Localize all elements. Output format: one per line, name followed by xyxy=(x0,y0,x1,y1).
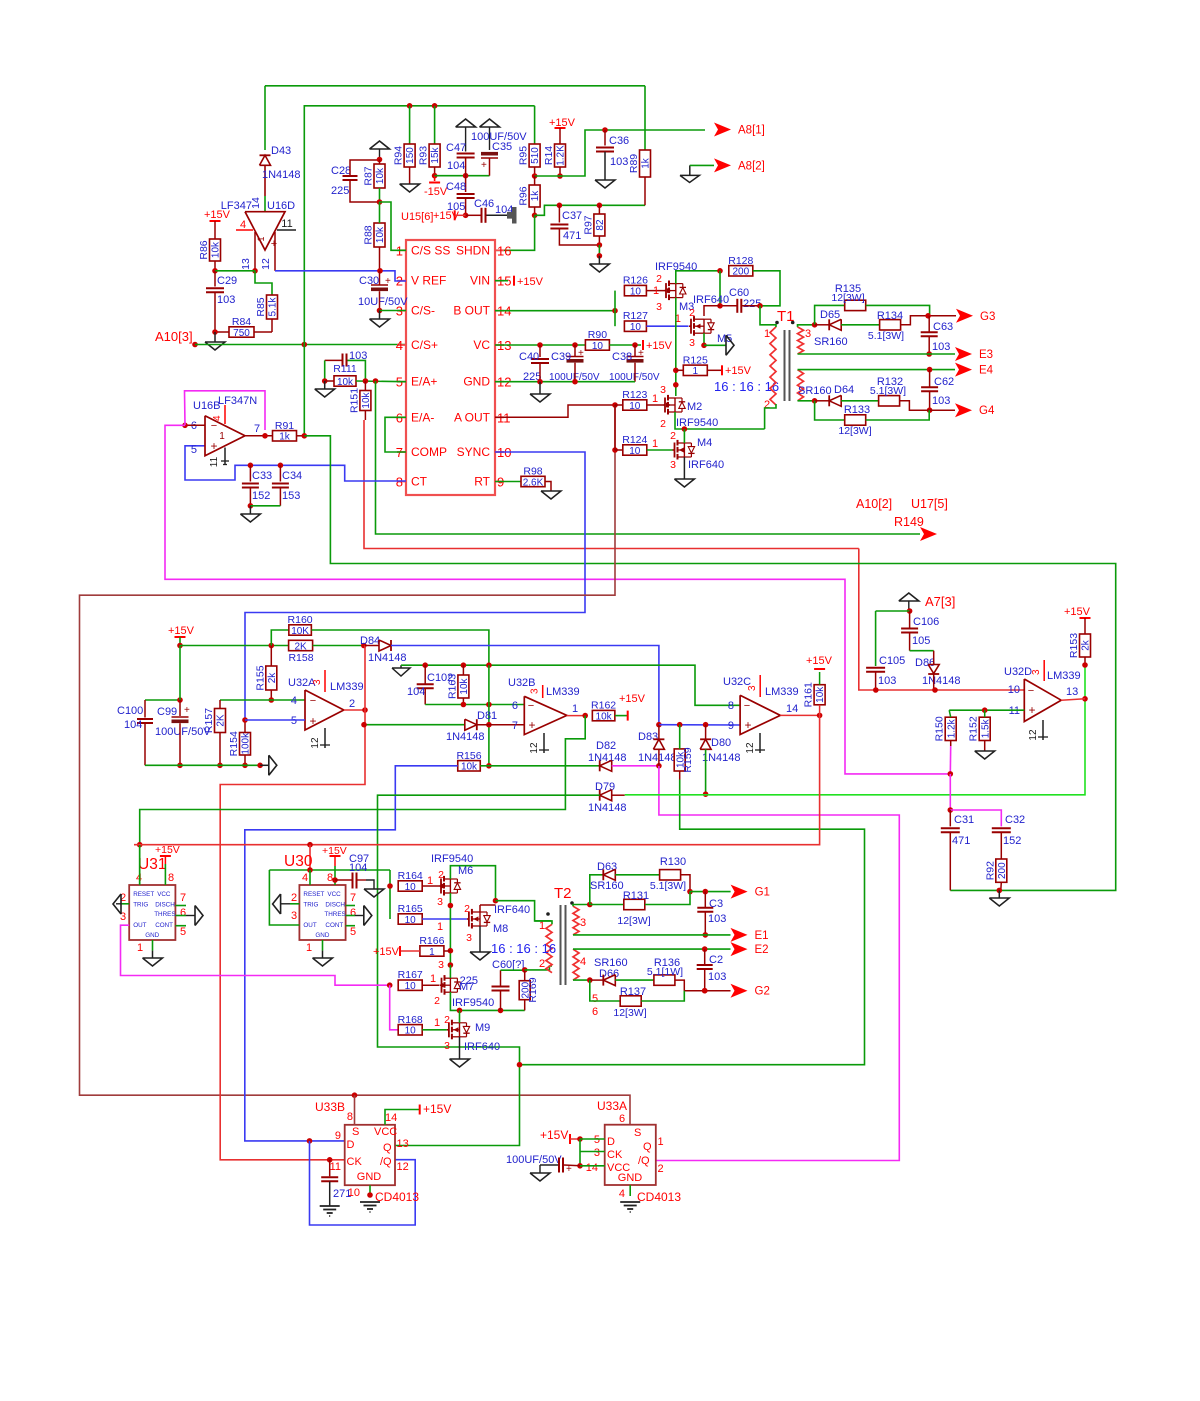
wire D84 cathode blue to U32C pin9 riser xyxy=(391,646,659,725)
ground under C40 xyxy=(539,382,541,394)
svg-text:2: 2 xyxy=(539,958,545,970)
IC U33A CD4013 xyxy=(605,1125,656,1185)
svg-text:R157: R157 xyxy=(203,708,215,733)
svg-text:7: 7 xyxy=(180,892,186,904)
svg-text:1: 1 xyxy=(430,973,436,985)
svg-text:VCC: VCC xyxy=(327,891,341,898)
svg-text:+15V: +15V xyxy=(806,655,833,667)
ground under 271 cap xyxy=(320,1205,340,1207)
wire U32D pin11 row xyxy=(949,709,1024,711)
svg-text:10k: 10k xyxy=(461,762,478,773)
transistor M9 IRF640 xyxy=(447,1029,449,1031)
ground U30 pin1 xyxy=(322,940,324,951)
svg-text:10: 10 xyxy=(629,446,641,457)
svg-text:R137: R137 xyxy=(620,986,646,998)
svg-text:10K: 10K xyxy=(291,626,309,637)
resistor R167 10 xyxy=(398,980,422,990)
svg-text:153: 153 xyxy=(282,490,300,502)
svg-text:+: + xyxy=(385,276,391,287)
svg-text:1: 1 xyxy=(652,393,658,405)
ground under C29 xyxy=(214,332,216,342)
net arrow above C47 xyxy=(456,119,476,127)
svg-text:COMP: COMP xyxy=(411,445,447,459)
svg-text:3: 3 xyxy=(530,688,541,694)
svg-text:R154: R154 xyxy=(228,731,240,756)
wire C106 jog to D86 xyxy=(910,650,934,652)
wire U32A pin5 blue xyxy=(245,719,305,721)
svg-text:R165: R165 xyxy=(398,903,423,915)
U15 pin 1 C/S SS xyxy=(397,249,406,251)
resistor R152 1.5k xyxy=(979,717,990,740)
svg-text:R93: R93 xyxy=(418,146,430,165)
svg-text:C/S-: C/S- xyxy=(411,304,435,318)
svg-text:6: 6 xyxy=(592,1006,598,1018)
capacitor C39 100UF/50V xyxy=(574,345,576,357)
ground under R97 xyxy=(598,256,600,264)
svg-text:471: 471 xyxy=(952,835,970,847)
svg-text:Q: Q xyxy=(383,1142,392,1154)
svg-text:3: 3 xyxy=(805,328,811,340)
wire D80 anode to lime row xyxy=(705,749,707,794)
svg-text:/Q: /Q xyxy=(638,1155,650,1167)
ground rail under U32A xyxy=(145,764,260,766)
svg-text:M2: M2 xyxy=(687,401,702,413)
svg-text:C100: C100 xyxy=(117,705,143,717)
U15 pin 2 V REF xyxy=(397,280,406,282)
svg-text:RT: RT xyxy=(474,475,490,489)
resistor R91 1k xyxy=(273,431,297,441)
svg-text:C32: C32 xyxy=(1005,814,1025,826)
svg-text:3: 3 xyxy=(444,1040,450,1052)
svg-text:3: 3 xyxy=(437,896,443,908)
svg-text:8: 8 xyxy=(728,700,734,712)
resistor R162 10k xyxy=(592,710,615,720)
wire +15V rail to R158 xyxy=(180,645,289,647)
svg-text:2: 2 xyxy=(464,903,470,915)
svg-text:+: + xyxy=(528,718,535,732)
wire x489 vertical xyxy=(488,665,490,766)
svg-text:104: 104 xyxy=(349,862,367,874)
wire red bus to U30 rail stub xyxy=(309,845,311,870)
svg-text:15k: 15k xyxy=(430,146,441,163)
svg-text:U31: U31 xyxy=(138,856,166,873)
svg-text:D43: D43 xyxy=(271,145,291,157)
svg-text:105: 105 xyxy=(912,635,930,647)
net arrow G4 xyxy=(955,403,972,417)
svg-text:E2: E2 xyxy=(755,944,769,956)
svg-text:12: 12 xyxy=(745,742,756,754)
net arrow A8[2] xyxy=(714,158,731,172)
svg-text:11: 11 xyxy=(281,218,292,230)
svg-text:R95: R95 xyxy=(518,146,530,165)
wire E2 row xyxy=(573,948,731,950)
svg-text:6: 6 xyxy=(180,907,186,919)
svg-text:M5: M5 xyxy=(717,333,732,345)
net arrow above R87 xyxy=(370,141,390,149)
svg-text:14: 14 xyxy=(586,1162,598,1174)
svg-text:C39: C39 xyxy=(551,351,571,363)
transistor M6 IRF9540 xyxy=(439,885,441,887)
svg-text:R14: R14 xyxy=(543,146,555,165)
svg-text:C36: C36 xyxy=(609,135,629,147)
wire R95/R14 row to A8 riser xyxy=(535,130,705,176)
svg-text:16 : 16 : 16: 16 : 16 : 16 xyxy=(714,379,779,394)
svg-text:510: 510 xyxy=(530,147,541,164)
svg-text:C28: C28 xyxy=(331,165,351,177)
svg-text:GND: GND xyxy=(145,932,159,939)
svg-text:1N4148: 1N4148 xyxy=(638,752,677,764)
wire M6 drain loop to M8 drain xyxy=(450,866,495,901)
svg-text:10: 10 xyxy=(405,981,417,992)
svg-text:8: 8 xyxy=(327,872,333,884)
svg-text:CK: CK xyxy=(607,1149,623,1161)
U15 pin 5 E/A+ xyxy=(397,381,406,383)
wire U31 CONT stub xyxy=(175,925,186,927)
net arrow above C35 xyxy=(480,119,500,127)
svg-text:R159: R159 xyxy=(682,747,694,772)
wire T2 pin1 jog xyxy=(535,921,552,924)
svg-text:U15[6]: U15[6] xyxy=(401,211,433,223)
svg-text:R128: R128 xyxy=(728,255,753,267)
svg-text:11: 11 xyxy=(209,456,220,467)
wire magenta to U33A /Q xyxy=(656,766,900,1161)
wire R165 blue to M8 gate xyxy=(422,918,467,920)
IC U30 555 timer xyxy=(299,885,345,940)
svg-text:D80: D80 xyxy=(711,737,731,749)
wire D82 anode magenta to D83 bottom xyxy=(612,765,659,767)
resistor R96 1k xyxy=(529,185,540,207)
capacitor C106 105 xyxy=(909,611,911,629)
svg-text:VIN: VIN xyxy=(470,274,490,288)
ground at C97 xyxy=(364,889,384,897)
U15 pin 11 A OUT xyxy=(495,416,504,418)
svg-text:TRIG: TRIG xyxy=(303,902,318,909)
svg-text:2: 2 xyxy=(658,1163,664,1175)
svg-text:−: − xyxy=(310,695,316,707)
svg-text:THRES: THRES xyxy=(154,911,175,918)
wire U33B GND xyxy=(369,1185,371,1195)
svg-text:R150: R150 xyxy=(934,716,946,741)
svg-text:1: 1 xyxy=(437,921,443,933)
wire M8 drain up xyxy=(479,905,481,912)
svg-text:LM339: LM339 xyxy=(1047,670,1081,682)
svg-text:T2: T2 xyxy=(554,885,572,902)
svg-text:IRF640: IRF640 xyxy=(693,294,729,306)
resistor R128 200 xyxy=(729,266,753,276)
svg-text:IRF640: IRF640 xyxy=(688,459,724,471)
svg-text:+15V: +15V xyxy=(155,844,180,856)
svg-text:3: 3 xyxy=(747,685,758,691)
U15 pin 4 C/S+ xyxy=(397,344,406,346)
svg-text:OUT: OUT xyxy=(133,922,146,929)
svg-text:D: D xyxy=(607,1136,615,1148)
svg-text:+15V: +15V xyxy=(517,276,544,288)
svg-text:150: 150 xyxy=(405,147,416,164)
svg-text:SYNC: SYNC xyxy=(457,445,491,459)
svg-text:G3: G3 xyxy=(980,311,995,323)
svg-text:R130: R130 xyxy=(660,856,686,868)
svg-text:10: 10 xyxy=(630,286,642,297)
svg-text:R155: R155 xyxy=(254,665,266,690)
wire blue row to U32C pin9 xyxy=(659,724,740,726)
wire R91 output to top bus xyxy=(304,106,534,436)
svg-text:82: 82 xyxy=(595,219,606,231)
resistor R97 82 xyxy=(594,214,605,236)
svg-text:1: 1 xyxy=(693,366,699,377)
svg-text:2: 2 xyxy=(434,995,440,1007)
resistor R133 12[3W] xyxy=(815,401,845,420)
svg-text:G2: G2 xyxy=(755,986,770,998)
resistor R92 200 xyxy=(996,859,1007,882)
svg-text:LF347N: LF347N xyxy=(218,395,257,407)
resistor R84 750 xyxy=(254,331,272,333)
resistor R163 10k xyxy=(458,675,469,698)
wire M9 drain up xyxy=(459,1010,461,1022)
wire U30 rail wrap to OUT xyxy=(269,870,299,925)
U15 pin 6 E/A- xyxy=(397,416,406,418)
wire M5 source to net arrow xyxy=(703,333,705,345)
svg-text:103: 103 xyxy=(932,395,950,407)
U15 pin 10 SYNC xyxy=(495,451,504,453)
svg-text:V REF: V REF xyxy=(411,274,446,288)
wire T2 pin6 to D66 node xyxy=(573,979,590,981)
svg-text:R127: R127 xyxy=(623,310,648,322)
svg-text:R126: R126 xyxy=(623,275,648,287)
svg-text:2: 2 xyxy=(689,307,695,319)
svg-text:16: 16 xyxy=(497,243,511,258)
wire -15V rail to C47 C35 xyxy=(435,175,490,177)
svg-text:13: 13 xyxy=(1066,686,1078,698)
wire SHDN riser R96 to pin16 xyxy=(495,215,535,250)
svg-text:13: 13 xyxy=(240,258,252,270)
svg-text:5.1[3W]: 5.1[3W] xyxy=(868,330,904,342)
svg-text:4: 4 xyxy=(302,872,308,884)
wire U31 OUT magenta to R167 R168 xyxy=(121,925,390,985)
wire U31 TRIG arrow xyxy=(121,903,129,905)
capacitor C60[?] 225 xyxy=(500,970,502,986)
comparator U32B LM339 xyxy=(524,696,567,734)
svg-text:103: 103 xyxy=(610,156,628,168)
svg-text:10: 10 xyxy=(405,915,417,926)
svg-text:VCC: VCC xyxy=(374,1126,397,1138)
svg-text:3: 3 xyxy=(656,301,662,313)
svg-text:R124: R124 xyxy=(622,434,647,446)
svg-text:2: 2 xyxy=(656,273,662,285)
svg-text:100UF/50V: 100UF/50V xyxy=(506,1154,562,1166)
svg-text:A7[3]: A7[3] xyxy=(925,594,955,609)
svg-text:R90: R90 xyxy=(588,329,607,341)
svg-text:1k: 1k xyxy=(641,157,652,169)
svg-text:9: 9 xyxy=(335,1130,341,1142)
svg-text:VC: VC xyxy=(473,338,490,352)
wire R156 right to D82 xyxy=(480,765,599,767)
svg-text:M9: M9 xyxy=(475,1022,490,1034)
svg-text:1: 1 xyxy=(137,942,143,954)
svg-text:U17[5]: U17[5] xyxy=(911,497,948,511)
resistor R89 1k xyxy=(644,86,646,150)
wire A OUT chain to R124 xyxy=(614,405,616,450)
svg-text:R149: R149 xyxy=(894,515,924,529)
svg-text:12: 12 xyxy=(1028,729,1039,741)
svg-text:C105: C105 xyxy=(879,655,905,667)
svg-text:3: 3 xyxy=(660,384,666,396)
comparator U32A LM339 xyxy=(305,690,344,730)
wire D79 cathode to U33B Q net xyxy=(378,795,600,1064)
svg-text:11: 11 xyxy=(330,1161,341,1173)
svg-text:D83: D83 xyxy=(638,731,658,743)
svg-text:IRF640: IRF640 xyxy=(464,1041,500,1053)
svg-text:C/S+: C/S+ xyxy=(411,338,438,352)
resistor R155 2k xyxy=(266,666,277,690)
net arrow E4 xyxy=(955,363,972,377)
svg-text:+: + xyxy=(1028,703,1035,717)
svg-text:LM339: LM339 xyxy=(330,681,364,693)
svg-text:3: 3 xyxy=(312,679,323,685)
svg-text:200: 200 xyxy=(732,267,749,278)
resistor R126 10 xyxy=(624,285,646,295)
svg-text:C46: C46 xyxy=(474,198,494,210)
wire A OUT brown bus to U33 S pins xyxy=(80,405,631,1125)
svg-text:A10[3]: A10[3] xyxy=(155,329,193,344)
svg-text:G1: G1 xyxy=(755,887,770,899)
svg-text:+15V: +15V xyxy=(373,946,400,958)
resistor R98 2.6K xyxy=(521,476,545,486)
power -15V xyxy=(434,176,436,181)
wire M7 source to bottom rail xyxy=(450,992,524,1010)
net arrow G3 xyxy=(956,309,973,323)
svg-text:C63: C63 xyxy=(933,321,953,333)
svg-text:10: 10 xyxy=(630,322,642,333)
wire C60 top to T2 pin2 node xyxy=(501,969,525,971)
svg-text:D81: D81 xyxy=(477,710,497,722)
svg-text:10k: 10k xyxy=(337,377,354,388)
capacitor C63 103 xyxy=(928,316,930,333)
capacitor C3 103 xyxy=(704,892,706,908)
net arrow at U32A ground rail xyxy=(268,755,270,775)
capacitor C32 152 xyxy=(992,827,1011,829)
transistor M2 IRF9540 xyxy=(663,404,665,406)
capacitor C37 471 xyxy=(558,205,560,222)
resistor R135 12[3W] xyxy=(845,300,866,310)
svg-text:C35: C35 xyxy=(492,141,512,153)
svg-text:D: D xyxy=(347,1139,355,1151)
wire C60 node to M5 drain xyxy=(704,306,720,316)
wire C60 left node riser xyxy=(719,271,721,306)
svg-text:A10[2]: A10[2] xyxy=(856,497,892,511)
svg-text:M4: M4 xyxy=(697,437,712,449)
U15 pin 15 VIN xyxy=(495,280,504,282)
diode D43 1N4148 xyxy=(260,154,271,156)
wire D79 anode lime to U32D output xyxy=(612,794,625,796)
svg-text:103: 103 xyxy=(708,913,726,925)
ground under R152 xyxy=(975,751,995,759)
svg-text:R133: R133 xyxy=(844,404,870,416)
svg-text:R160: R160 xyxy=(288,614,313,626)
wire R135 bypass branch xyxy=(815,305,845,324)
ground symbol A8[2] xyxy=(680,175,699,182)
wire U31 THRES to arrow xyxy=(175,915,186,917)
svg-text:R169: R169 xyxy=(527,977,539,1002)
svg-text:12: 12 xyxy=(260,258,272,270)
transistor M5 IRF640 xyxy=(689,325,691,327)
resistor R151 10k xyxy=(360,391,371,411)
U15 pin 3 C/S- xyxy=(397,310,406,312)
IC U31 555 timer xyxy=(129,885,175,940)
net arrow E3 xyxy=(955,347,972,361)
wire U16B output pin7 xyxy=(245,435,273,437)
wire R160 to ground row xyxy=(311,630,489,665)
svg-text:1: 1 xyxy=(658,1136,664,1148)
svg-text:C33: C33 xyxy=(252,470,272,482)
svg-text:1N4148: 1N4148 xyxy=(368,652,407,664)
wire magenta to C31 C32 xyxy=(949,774,951,810)
svg-text:5: 5 xyxy=(350,926,356,938)
svg-text:C30: C30 xyxy=(359,275,379,287)
wire R130 bypass branch up xyxy=(590,875,604,905)
svg-text:R162: R162 xyxy=(591,700,616,712)
ground under C30 xyxy=(379,311,381,320)
resistor R137 12[3W] xyxy=(590,980,620,1001)
svg-text:10: 10 xyxy=(1008,684,1020,696)
svg-text:3: 3 xyxy=(1031,669,1042,675)
svg-text:7: 7 xyxy=(512,720,518,732)
resistor R169 200 xyxy=(519,981,530,1000)
wire U33B S from brown bus xyxy=(354,1095,356,1125)
capacitor C102 104 xyxy=(424,665,426,684)
svg-text:225: 225 xyxy=(460,975,478,987)
resistor R154 100k xyxy=(240,733,251,756)
svg-text:2K: 2K xyxy=(216,714,227,727)
svg-text:R86: R86 xyxy=(198,240,210,259)
resistor R94 150 xyxy=(409,106,411,144)
svg-text:225: 225 xyxy=(331,185,349,197)
svg-text:10: 10 xyxy=(629,401,641,412)
U15 pin 7 COMP xyxy=(397,451,406,453)
wire R159 bottom green to U33B Q net xyxy=(395,780,865,1146)
svg-text:M6: M6 xyxy=(458,865,473,877)
wire T1 pin2 to M2/M4 row xyxy=(765,404,776,429)
wire U30 rail to R164 R165 xyxy=(389,870,391,919)
svg-text:C62: C62 xyxy=(934,376,954,388)
svg-text:R94: R94 xyxy=(393,146,405,165)
wire M2 source down to T1 pin2 row xyxy=(675,412,765,429)
svg-text:R134: R134 xyxy=(877,310,903,322)
svg-text:R84: R84 xyxy=(232,316,251,328)
svg-text:U32B: U32B xyxy=(508,677,536,689)
svg-text:2.6K: 2.6K xyxy=(523,477,544,488)
wire E3 row xyxy=(798,353,956,355)
svg-text:5: 5 xyxy=(191,444,197,456)
svg-text:U30: U30 xyxy=(284,853,313,870)
svg-text:LM339: LM339 xyxy=(546,686,580,698)
svg-text:10: 10 xyxy=(405,1026,417,1037)
capacitor C62 103 xyxy=(929,370,931,388)
svg-text:5.1[1W]: 5.1[1W] xyxy=(647,966,683,978)
svg-text:1.2k: 1.2k xyxy=(946,718,957,738)
U15 pin 16 SHDN xyxy=(495,249,504,251)
wire magenta R167 to R168 xyxy=(390,985,399,1030)
wire R150 bottom magenta node xyxy=(949,746,951,774)
svg-text:C2: C2 xyxy=(709,954,723,966)
wire U32A pin4 row xyxy=(220,699,305,701)
svg-text:6: 6 xyxy=(350,907,356,919)
op-amp U16D LF347 (points down) xyxy=(245,212,285,250)
transistor M7 IRF9540 xyxy=(440,984,442,986)
svg-text:3: 3 xyxy=(291,910,297,922)
ground under C33 xyxy=(249,506,251,514)
svg-text:SR160: SR160 xyxy=(798,385,832,397)
svg-text:OUT: OUT xyxy=(303,922,316,929)
